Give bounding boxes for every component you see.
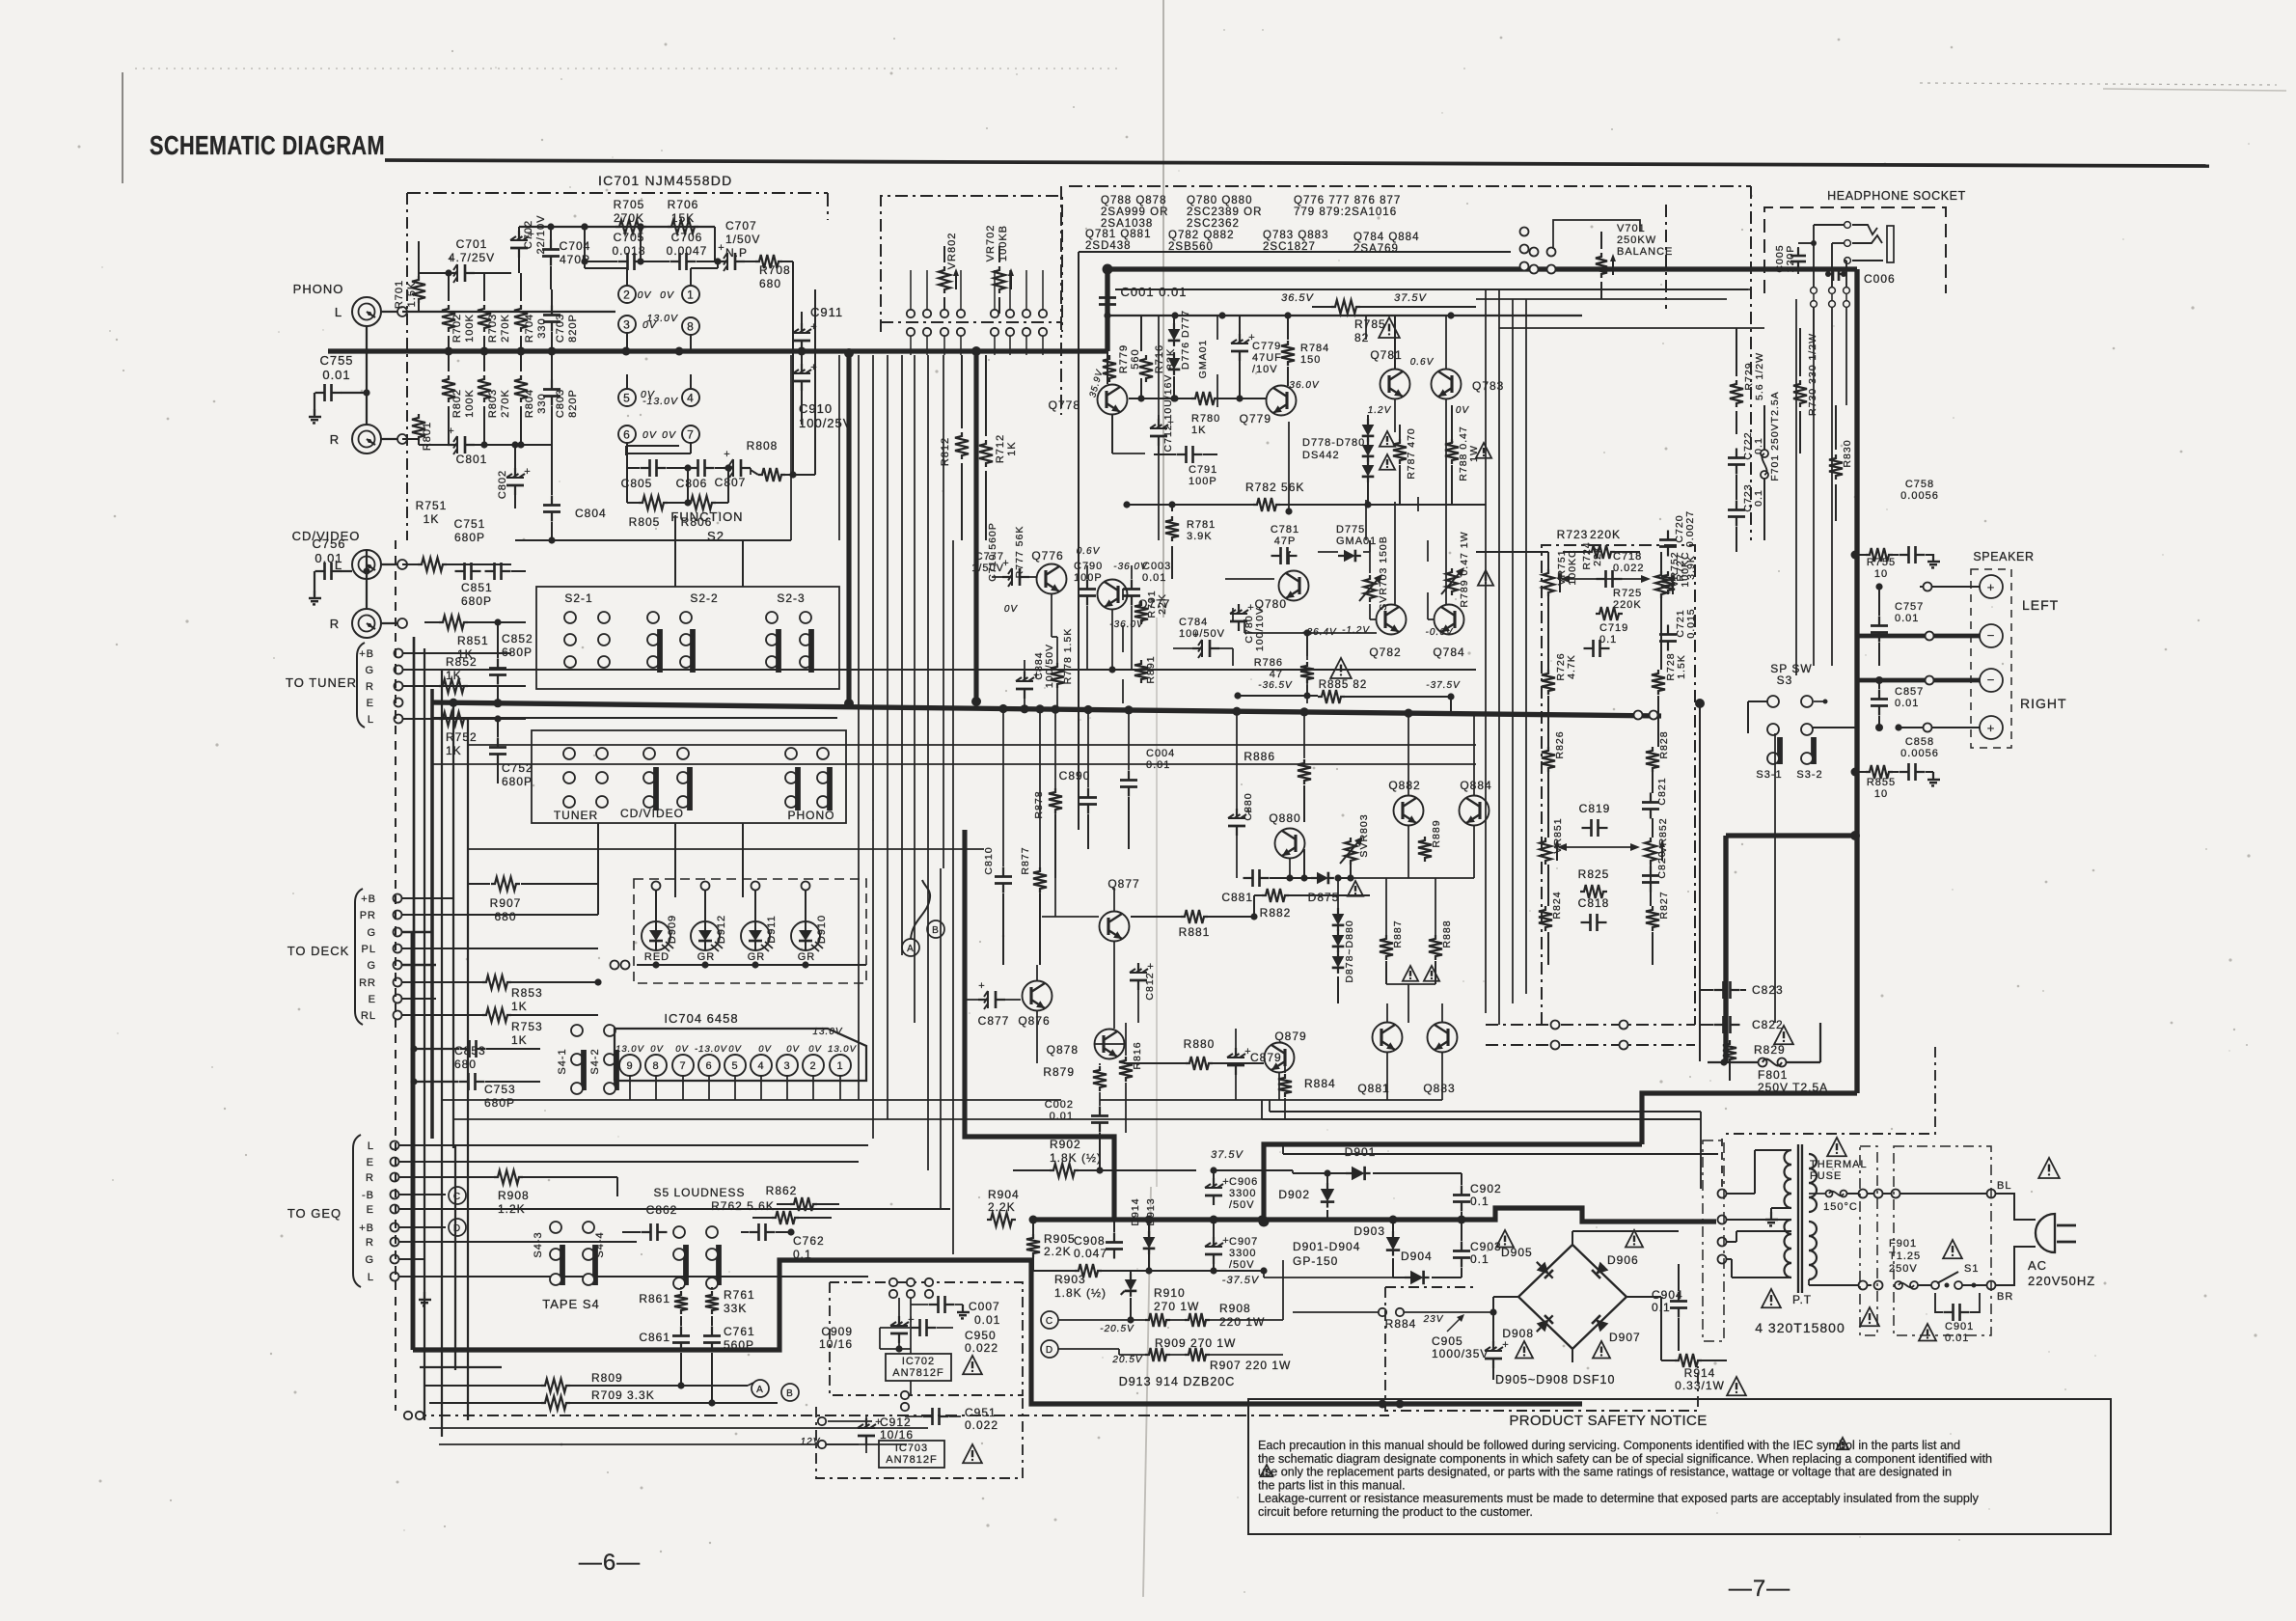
- transistor Q776: [1037, 564, 1067, 594]
- svg-text:R802: R802: [451, 389, 463, 418]
- svg-text:6: 6: [623, 427, 631, 441]
- svg-text:S3: S3: [1777, 673, 1793, 687]
- svg-text:A: A: [907, 944, 915, 954]
- switch box TUNER/CD/PHONO: [532, 730, 846, 823]
- potentiometer VR851: [1540, 838, 1551, 865]
- svg-text:R902: R902: [1050, 1138, 1081, 1151]
- svg-text:R812: R812: [940, 437, 951, 466]
- svg-text:D908: D908: [1502, 1327, 1534, 1340]
- svg-text:R904: R904: [988, 1188, 1020, 1201]
- capacitor C810: [983, 846, 995, 874]
- opamp IC701 pin 1: [682, 286, 699, 303]
- svg-text:4.7/25V: 4.7/25V: [449, 251, 495, 264]
- transistor Q877: [1100, 912, 1130, 942]
- svg-text:D913 914 DZB20C: D913 914 DZB20C: [1119, 1375, 1236, 1388]
- resistor R888: [1429, 935, 1442, 960]
- resistor R805: [639, 496, 668, 509]
- transistor Q784: [1435, 605, 1464, 635]
- switch box S2: [536, 587, 839, 689]
- svg-text:D904: D904: [1401, 1250, 1433, 1263]
- svg-text:0V: 0V: [758, 1044, 772, 1055]
- capacitor C723: [1736, 501, 1737, 510]
- transistor Q782: [1377, 605, 1407, 635]
- svg-text:C810: C810: [983, 846, 995, 874]
- svg-text:C820: C820: [1656, 850, 1668, 878]
- transistor Q879: [1265, 1043, 1295, 1073]
- bold rail drop: [1723, 836, 1728, 1062]
- wire phono R stub: [381, 438, 397, 440]
- svg-text:/10V: /10V: [1252, 364, 1278, 375]
- wire v701 bracket: [1553, 220, 1640, 232]
- svg-text:0.022: 0.022: [1613, 563, 1645, 574]
- svr SVR703: [1364, 575, 1376, 602]
- warning triangle notice1: [1837, 1438, 1849, 1449]
- svg-text:S3-1: S3-1: [1756, 769, 1782, 781]
- resistor R812: [940, 437, 951, 466]
- svg-text:Q878: Q878: [1047, 1043, 1079, 1057]
- svg-text:C901: C901: [1945, 1321, 1974, 1333]
- svg-text:R709 3.3K: R709 3.3K: [591, 1388, 655, 1402]
- product safety notice box: [1248, 1399, 2111, 1534]
- svg-text:L: L: [335, 305, 342, 319]
- svg-text:+: +: [524, 466, 531, 478]
- wire r816 c812 columns: [1125, 1023, 1127, 1056]
- svg-text:4: 4: [687, 391, 695, 404]
- transistor Q777: [1098, 580, 1128, 610]
- wire q876 c877: [1005, 999, 1021, 1001]
- svg-text:680P: 680P: [502, 775, 533, 788]
- svg-text:C902: C902: [1470, 1182, 1502, 1195]
- wire cd jacks: [366, 550, 368, 571]
- svg-text:0.0056: 0.0056: [1900, 748, 1939, 759]
- resistor R830: [1829, 454, 1843, 480]
- phono L jack J1: [352, 297, 381, 326]
- resistor R753: [482, 1008, 511, 1022]
- svg-text:R862: R862: [766, 1184, 798, 1197]
- resistor R909: [1145, 1348, 1170, 1361]
- svg-text:23V: 23V: [1423, 1314, 1444, 1325]
- svg-text:8: 8: [687, 319, 695, 333]
- svg-text:Q781: Q781: [1370, 348, 1402, 362]
- switch S2-3 contacts: [766, 612, 778, 623]
- svg-text:C951: C951: [965, 1406, 997, 1419]
- svg-text:D: D: [453, 1223, 461, 1234]
- wire S3 internals: [1748, 701, 1767, 702]
- svg-text:C003: C003: [1142, 561, 1171, 572]
- resistor R887: [1380, 935, 1393, 960]
- svg-text:R777 56K: R777 56K: [1014, 526, 1025, 579]
- svg-text:S4-3: S4-3: [533, 1231, 544, 1257]
- capacitor C005: [1774, 244, 1796, 272]
- opamp IC701 pin 3: [618, 316, 636, 333]
- wire right lower verticals: [1699, 703, 1701, 926]
- ground after C758: [1932, 555, 1934, 560]
- svg-text:Q776 777 876 877: Q776 777 876 877: [1294, 195, 1401, 206]
- svg-text:3.9K: 3.9K: [1685, 555, 1697, 580]
- resistor R889: [1418, 837, 1432, 862]
- wire output row 1140: [1100, 1099, 1442, 1101]
- svg-text:circuit before returning the p: circuit before returning the product to …: [1258, 1505, 1533, 1519]
- brace TO DECK: [355, 889, 363, 1025]
- capacitor C805: [641, 467, 650, 469]
- diodes D878-D880: [1332, 914, 1345, 925]
- warning triangle R785: [1379, 317, 1400, 338]
- svg-text:0V: 0V: [660, 289, 674, 301]
- svg-text:680: 680: [494, 910, 516, 923]
- svg-text:C701: C701: [456, 237, 488, 251]
- svg-text:R905: R905: [1044, 1232, 1076, 1246]
- svg-text:D776 D777: D776 D777: [1180, 310, 1191, 370]
- svg-text:F801: F801: [1758, 1068, 1788, 1082]
- svg-text:-0.6V: -0.6V: [1426, 627, 1454, 638]
- svg-text:E: E: [367, 1204, 374, 1216]
- svg-text:G: G: [367, 960, 376, 972]
- svg-text:C752: C752: [502, 761, 533, 775]
- svg-text:D875: D875: [1308, 891, 1340, 904]
- svg-text:13.0V: 13.0V: [647, 313, 678, 324]
- svg-text:2: 2: [623, 288, 631, 301]
- svg-text:BR: BR: [1997, 1291, 2013, 1303]
- svg-text:R784: R784: [1300, 343, 1329, 354]
- svg-text:R889: R889: [1431, 819, 1442, 847]
- svg-text:SPEAKER: SPEAKER: [1973, 550, 2034, 563]
- svg-text:0.01: 0.01: [1050, 1111, 1074, 1122]
- bold vertical right channel: [973, 351, 978, 701]
- svg-text:GR: GR: [748, 951, 766, 963]
- capacitor C722: [1736, 449, 1737, 458]
- resistor R910: [1145, 1313, 1170, 1327]
- label S4-2: [589, 1048, 601, 1074]
- regulator dashdot box 702: [830, 1282, 1023, 1395]
- svg-text:C801: C801: [456, 453, 488, 466]
- svg-text:R879: R879: [1043, 1065, 1075, 1079]
- opamp IC701 pin 6: [618, 426, 636, 443]
- svg-text:R853: R853: [511, 986, 543, 1000]
- wire r879 column: [1099, 1063, 1101, 1065]
- svg-text:−: −: [1987, 628, 1996, 643]
- svg-text:PRODUCT SAFETY NOTICE: PRODUCT SAFETY NOTICE: [1509, 1413, 1707, 1429]
- svg-text:VR852: VR852: [1657, 817, 1669, 853]
- switch cdvideo contacts: [643, 748, 655, 759]
- svg-text:+: +: [1192, 629, 1199, 641]
- node circle B: [781, 1384, 799, 1401]
- capacitor C807 electrolytic: [724, 467, 733, 469]
- svg-text:C001 0.01: C001 0.01: [1121, 285, 1188, 299]
- svg-text:0V: 0V: [786, 1044, 800, 1055]
- svg-text:R725: R725: [1613, 588, 1642, 599]
- transistor Q882: [1394, 796, 1424, 826]
- resistor R828: [1646, 747, 1659, 772]
- svg-text:1.8K (½): 1.8K (½): [1050, 1151, 1102, 1165]
- svg-text:HEADPHONE SOCKET: HEADPHONE SOCKET: [1827, 189, 1966, 203]
- svg-text:R877: R877: [1020, 846, 1031, 874]
- svg-text:C909: C909: [821, 1325, 853, 1338]
- svg-text:G: G: [367, 927, 376, 939]
- resistor R855: [1866, 765, 1893, 779]
- svg-text:C805: C805: [621, 477, 653, 490]
- wire upper amp verticals: [1107, 332, 1108, 384]
- svg-text:-37.5V: -37.5V: [1426, 680, 1461, 691]
- svg-text:+: +: [718, 242, 724, 254]
- svg-text:S4-1: S4-1: [557, 1048, 568, 1074]
- svg-text:R780: R780: [1191, 413, 1220, 425]
- svg-text:F701 250VT2.5A: F701 250VT2.5A: [1769, 391, 1781, 481]
- wire c823 vertical: [1699, 926, 1701, 1061]
- wire output row 1160: [1061, 1118, 1285, 1120]
- svg-text:C781: C781: [1271, 524, 1299, 536]
- wire driver collectors: [1386, 1003, 1388, 1022]
- capacitor C712 electrolytic: [1158, 419, 1160, 428]
- svg-text:+: +: [1502, 1339, 1509, 1351]
- svg-text:C907: C907: [1229, 1236, 1258, 1248]
- resistor R891: [1145, 655, 1157, 683]
- svg-text:R855: R855: [1867, 777, 1896, 788]
- svg-text:R701: R701: [394, 280, 405, 309]
- svg-text:PL: PL: [362, 944, 376, 955]
- svg-text:22K: 22K: [1157, 593, 1168, 615]
- svg-text:R761: R761: [724, 1288, 755, 1302]
- resistor R803: [487, 389, 511, 418]
- transistor Q881 drv: [1373, 1023, 1403, 1053]
- svg-text:-B: -B: [362, 1190, 374, 1201]
- wire q780 base feed: [1225, 578, 1274, 580]
- svg-text:Q879: Q879: [1274, 1030, 1306, 1043]
- svg-text:C818: C818: [1578, 896, 1610, 910]
- svg-text:3.9K: 3.9K: [1187, 531, 1213, 542]
- wire r887 r888 tops: [1385, 878, 1387, 935]
- svg-text:C804: C804: [575, 507, 607, 520]
- bold power rail main: [1032, 1208, 1716, 1222]
- svg-text:D901: D901: [1345, 1145, 1377, 1159]
- svg-text:S2-3: S2-3: [777, 591, 805, 605]
- transistor Q778: [1098, 385, 1128, 415]
- svg-text:0V: 0V: [1004, 604, 1019, 615]
- warning triangle C901: [1919, 1324, 1936, 1341]
- label S4-1: [557, 1048, 568, 1074]
- wire AB squiggle: [911, 880, 930, 939]
- svg-text:R779: R779: [1118, 344, 1130, 373]
- transformer center tap ground: [1770, 1208, 1772, 1218]
- svg-text:1: 1: [687, 288, 695, 301]
- wire bridge leads: [1493, 1296, 1518, 1298]
- svg-text:TO GEQ: TO GEQ: [287, 1206, 342, 1221]
- svg-text:C950: C950: [965, 1329, 997, 1342]
- bold phono signal bus: [328, 348, 1107, 353]
- capacitor C710: [987, 522, 998, 582]
- svg-text:+: +: [1987, 580, 1996, 594]
- svg-text:—7—: —7—: [1729, 1576, 1790, 1602]
- transistor Q783: [1432, 370, 1462, 399]
- preamp dashdot box right: [827, 193, 829, 220]
- wire preamp output feed: [792, 273, 794, 475]
- svg-text:Q779: Q779: [1240, 412, 1271, 426]
- svg-text:680P: 680P: [461, 594, 492, 608]
- resistor R827: [1646, 906, 1659, 931]
- svg-text:D902: D902: [1278, 1188, 1310, 1201]
- svg-text:9: 9: [626, 1060, 633, 1072]
- svg-text:680P: 680P: [484, 1096, 515, 1110]
- svg-text:5: 5: [731, 1060, 738, 1072]
- resistor R787: [1393, 439, 1407, 464]
- svg-text:G: G: [365, 1254, 374, 1266]
- svg-text:R781: R781: [1187, 519, 1216, 531]
- svg-text:C879: C879: [1250, 1051, 1282, 1064]
- svg-text:D911: D911: [766, 915, 778, 943]
- wire left bus v4: [441, 670, 443, 1437]
- vr block dashdot bottom: [881, 321, 1062, 323]
- svg-text:R852: R852: [446, 655, 478, 669]
- svg-text:1K: 1K: [446, 744, 462, 757]
- headphone connector circles: [1845, 222, 1851, 229]
- wire Q781 collector: [1367, 415, 1369, 418]
- capacitor C791: [1177, 453, 1187, 455]
- vr block connector circles row2: [907, 328, 915, 336]
- svg-text:36.5V: 36.5V: [1281, 292, 1314, 304]
- transistor Q781: [1380, 370, 1410, 399]
- warning triangle R789: [1478, 570, 1493, 586]
- svg-text:−: −: [1987, 673, 1996, 687]
- led D911: [741, 921, 770, 950]
- svg-text:SVR703 150B: SVR703 150B: [1378, 536, 1389, 611]
- svg-text:C: C: [453, 1192, 461, 1202]
- svg-text:R908: R908: [1219, 1302, 1251, 1315]
- svg-text:FUNCTION: FUNCTION: [670, 509, 743, 524]
- resistor R816: [1119, 1057, 1133, 1082]
- wire q776 base feed: [1029, 576, 1036, 578]
- svg-text:GR: GR: [798, 951, 816, 963]
- capacitor C906 electrolytic: [1213, 1178, 1215, 1188]
- warning triangle ps1: [1860, 1307, 1879, 1326]
- capacitor C851 series: [485, 570, 495, 572]
- svg-text:C753: C753: [484, 1083, 516, 1096]
- svg-text:D878~D880: D878~D880: [1344, 920, 1355, 982]
- svg-text:13.0V: 13.0V: [828, 1044, 857, 1055]
- svg-text:2SC1827: 2SC1827: [1263, 241, 1316, 253]
- svg-text:220P: 220P: [1785, 245, 1796, 273]
- svg-text:R730 330 1/2W: R730 330 1/2W: [1807, 333, 1818, 416]
- svg-text:R703: R703: [487, 314, 499, 343]
- svg-text:0.047: 0.047: [1074, 1247, 1107, 1260]
- svg-text:R887: R887: [1392, 920, 1404, 948]
- svg-text:2.2K: 2.2K: [1044, 1245, 1072, 1258]
- svg-text:C908: C908: [1074, 1234, 1106, 1248]
- wire left bus v2 bold: [430, 689, 434, 1139]
- svg-text:C880: C880: [1243, 792, 1254, 820]
- wire b880 jb: [1337, 976, 1339, 1003]
- svg-text:1K: 1K: [511, 1000, 528, 1013]
- svg-text:7: 7: [687, 427, 695, 441]
- svg-text:DS442: DS442: [1302, 450, 1340, 461]
- svg-text:D914: D914: [1130, 1197, 1141, 1225]
- svg-text:C890: C890: [1059, 769, 1091, 783]
- svg-text:R885 82: R885 82: [1319, 679, 1367, 691]
- svg-text:THERMAL: THERMAL: [1810, 1159, 1868, 1170]
- capacitor C780 electrolytic: [1238, 604, 1240, 614]
- wire r782 row: [1417, 497, 1419, 511]
- svg-text:C821: C821: [1656, 777, 1668, 805]
- svg-text:D909: D909: [667, 915, 678, 944]
- svg-text:CD/VIDEO: CD/VIDEO: [620, 807, 684, 820]
- bold power left feed: [965, 830, 1114, 1220]
- regulator grid circles: [889, 1278, 897, 1286]
- svg-text:+: +: [810, 362, 817, 373]
- svg-text:R755: R755: [1867, 557, 1896, 568]
- wire q877 emitter: [1113, 942, 1115, 1029]
- ic703 box: [879, 1441, 944, 1468]
- wire left bus v5: [467, 719, 469, 1420]
- potentiometer VR702: [985, 225, 1009, 262]
- svg-text:220 1W: 220 1W: [1219, 1315, 1265, 1329]
- svg-text:R702: R702: [451, 314, 463, 343]
- svg-text:C712 10U/16V: C712 10U/16V: [1162, 374, 1174, 453]
- transformer primary winding: [1809, 1154, 1817, 1168]
- ic704 pin leads: [629, 1076, 631, 1100]
- svg-text:BL: BL: [1997, 1180, 2011, 1192]
- svg-text:R804: R804: [524, 389, 535, 418]
- svg-text:13.0V: 13.0V: [615, 1044, 644, 1055]
- resistor R801: [422, 422, 433, 451]
- warning triangle ic703: [963, 1444, 982, 1463]
- svg-text:220K: 220K: [1613, 599, 1642, 611]
- wire -36.4 row: [1244, 632, 1377, 634]
- svg-text:RIGHT: RIGHT: [2020, 696, 2067, 711]
- svg-text:FUSE: FUSE: [1810, 1170, 1842, 1182]
- transformer left connector circles: [1718, 1190, 1727, 1198]
- led D909: [642, 921, 670, 950]
- wire phono L stub: [381, 311, 397, 313]
- svg-text:2SC2362: 2SC2362: [1187, 218, 1240, 230]
- resistor R701: [394, 280, 418, 309]
- wire q878 q879 row: [1094, 1043, 1124, 1045]
- bold descend to rail: [1264, 1144, 1642, 1222]
- wire left bus v1 bold: [411, 932, 416, 1350]
- svg-text:2SD438: 2SD438: [1085, 240, 1132, 252]
- title underline: [385, 160, 2209, 166]
- wire mid right horizontals: [1499, 327, 1764, 329]
- svg-text:0.0056: 0.0056: [1900, 490, 1939, 502]
- svg-text:10/16: 10/16: [819, 1337, 853, 1351]
- wire right vertical run4: [1525, 299, 1527, 994]
- label GMA01: [1197, 340, 1209, 379]
- wire amp mid verticals bundle: [858, 355, 860, 1100]
- wire power to transformer h1: [1283, 1153, 1718, 1155]
- svg-text:R786: R786: [1254, 657, 1283, 669]
- bold vertical left channel: [846, 353, 851, 703]
- wire second rail: [1115, 288, 1748, 290]
- svg-text:the parts list in this manual.: the parts list in this manual.: [1258, 1478, 1406, 1492]
- dashdot box trafo left: [1703, 1140, 1724, 1341]
- svg-text:PHONO: PHONO: [787, 809, 834, 822]
- switch S5 contacts: [673, 1226, 685, 1238]
- svg-text:R880: R880: [1184, 1037, 1216, 1051]
- svg-text:R825: R825: [1578, 867, 1610, 881]
- resistor ladder R704: [524, 314, 548, 343]
- svg-text:R808: R808: [747, 439, 779, 453]
- wire BL line: [1847, 1193, 1989, 1195]
- svg-text:0.01: 0.01: [1146, 759, 1170, 771]
- svg-text:A: A: [756, 1385, 764, 1395]
- svg-text:10: 10: [1874, 568, 1888, 580]
- svg-text:C779: C779: [1252, 341, 1281, 352]
- svg-text:R805: R805: [629, 515, 661, 529]
- opamp IC701 pin 4: [682, 389, 699, 406]
- wire phono L to bus: [366, 326, 368, 393]
- switch S3 contacts top: [1767, 696, 1779, 707]
- bold power bus left L: [413, 1260, 1582, 1404]
- opamp IC701 pin 5: [618, 389, 636, 406]
- svg-text:PHONO: PHONO: [293, 282, 344, 296]
- svg-text:LEFT: LEFT: [2022, 597, 2059, 613]
